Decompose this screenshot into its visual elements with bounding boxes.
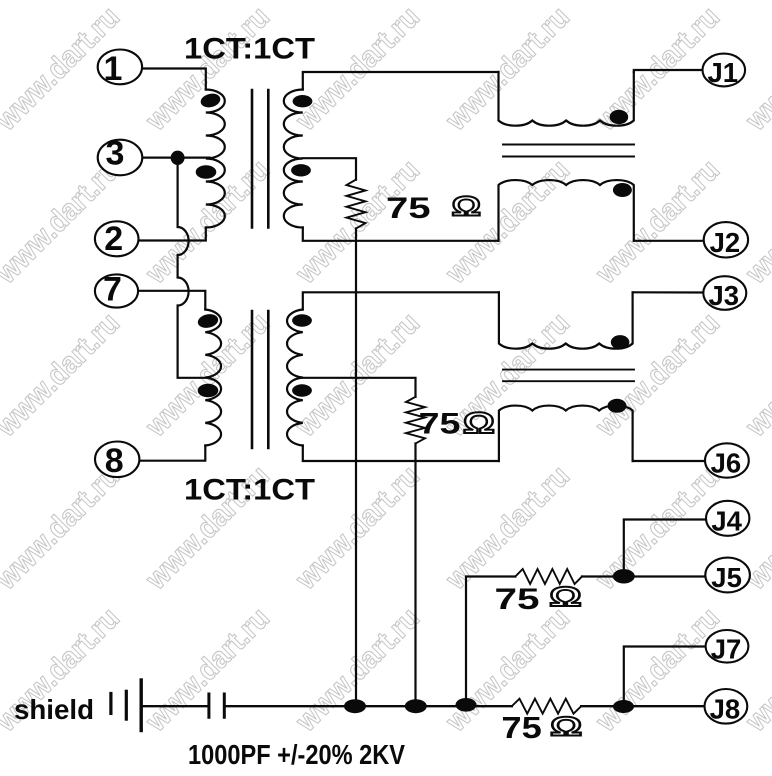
polarity dot T1 secondary upper xyxy=(293,95,313,107)
pin terminal 3 xyxy=(98,140,143,176)
transformer T2 secondary winding xyxy=(287,310,303,446)
junction node R3 branch on ground bus xyxy=(456,698,477,712)
wire T2 secondary center tap to resistor R2 xyxy=(303,378,416,397)
wire T1 secondary top to choke L1 xyxy=(303,72,499,90)
choke L2 top winding xyxy=(499,292,633,348)
wire R4 to J8 xyxy=(581,705,705,707)
junction node R2 on ground bus xyxy=(405,699,427,713)
wire R2 bottom to ground bus xyxy=(414,444,416,707)
svg-text:J4: J4 xyxy=(711,505,742,536)
wire pin1 to T1 primary top xyxy=(142,69,206,90)
resistor R3 75 ohm xyxy=(515,569,582,584)
pin terminal 2 xyxy=(95,221,139,256)
wire node to J7 xyxy=(624,647,706,707)
wire T1 secondary bottom xyxy=(303,228,499,241)
svg-text:1000PF +/-20% 2KV: 1000PF +/-20% 2KV xyxy=(188,739,405,770)
svg-text:1CT:1CT: 1CT:1CT xyxy=(184,33,315,66)
wire choke L2 to J3 xyxy=(633,291,704,293)
resistor R1 75 ohm xyxy=(347,180,366,229)
svg-text:J3: J3 xyxy=(709,280,740,311)
wire T2 primary bottom to pin8 xyxy=(139,446,205,461)
polarity dot T2 primary lower xyxy=(198,384,219,397)
pin terminal 7 xyxy=(95,274,138,307)
polarity dot choke L1 top xyxy=(610,110,629,124)
svg-text:2: 2 xyxy=(104,220,123,258)
pin terminal 1 xyxy=(98,50,142,85)
svg-text:8: 8 xyxy=(105,442,124,480)
terminal J7 xyxy=(706,630,749,663)
svg-text:J7: J7 xyxy=(711,633,742,664)
polarity dot T1 primary upper xyxy=(199,92,222,110)
shield symbol xyxy=(109,694,112,714)
polarity dot choke L2 bottom xyxy=(608,399,627,413)
polarity dot choke L1 bottom xyxy=(613,183,632,197)
svg-text:75: 75 xyxy=(501,710,541,745)
transformer T1 primary winding xyxy=(206,90,225,228)
wire pin3 to T1 center tap xyxy=(142,157,210,159)
svg-text:75: 75 xyxy=(495,583,540,616)
choke L1 core xyxy=(503,145,634,157)
terminal J5 xyxy=(705,558,750,593)
wire choke L1 to J2 xyxy=(634,240,704,242)
polarity dot T1 primary lower xyxy=(196,165,217,178)
svg-text:1CT:1CT: 1CT:1CT xyxy=(184,474,315,507)
wire ground bus up to resistor R3 xyxy=(466,577,515,705)
svg-text:J6: J6 xyxy=(711,448,742,479)
junction node R1 on ground bus xyxy=(344,699,366,713)
svg-text:J2: J2 xyxy=(710,227,741,258)
svg-text:J1: J1 xyxy=(708,57,739,88)
svg-text:Ω: Ω xyxy=(550,712,582,742)
svg-text:1: 1 xyxy=(103,50,122,88)
terminal J8 xyxy=(705,689,748,724)
wire R3 to J5 xyxy=(582,575,705,577)
wire choke L1 to J1 xyxy=(634,70,704,72)
polarity dot choke L2 top xyxy=(611,335,630,349)
svg-text:75: 75 xyxy=(419,408,461,441)
wire shield to capacitor C1 xyxy=(141,705,209,707)
svg-text:75: 75 xyxy=(386,192,431,225)
terminal J2 xyxy=(704,222,748,257)
junction node J4/J5 xyxy=(613,569,635,583)
terminal J1 xyxy=(703,54,746,87)
choke L2 bottom winding xyxy=(499,406,633,461)
svg-text:Ω: Ω xyxy=(452,191,482,222)
polarity dot T2 secondary upper xyxy=(292,314,312,326)
junction node pin3 / center taps xyxy=(171,151,185,165)
wire R1 bottom to ground bus xyxy=(355,229,357,707)
svg-text:3: 3 xyxy=(106,135,125,173)
transformer T2 primary winding xyxy=(205,310,221,446)
transformer T1 core xyxy=(252,90,268,228)
wire pin7 to T2 primary top xyxy=(138,291,205,310)
wire node to J4 xyxy=(624,520,706,577)
ground bus wire xyxy=(224,705,512,707)
terminal J3 xyxy=(703,276,746,310)
choke L1 top winding xyxy=(499,72,634,126)
resistor R4 75 ohm xyxy=(512,699,581,714)
wire T1 secondary center tap to resistor R1 xyxy=(303,158,356,179)
polarity dot T1 secondary lower xyxy=(291,164,311,176)
svg-text:7: 7 xyxy=(103,271,122,309)
resistor R2 75 ohm xyxy=(406,397,425,444)
wire choke L2 to J6 xyxy=(633,460,705,462)
svg-text:J8: J8 xyxy=(710,693,741,724)
terminal J4 xyxy=(706,501,749,536)
transformer T2 core xyxy=(252,311,268,448)
polarity dot T2 secondary lower xyxy=(292,384,312,396)
choke L2 core xyxy=(503,370,634,382)
wire pin3 junction down to T2 center tap (with crossover hops) xyxy=(178,158,206,378)
transformer T1 secondary winding xyxy=(284,90,303,228)
polarity dot T2 primary upper xyxy=(197,312,220,329)
svg-text:shield: shield xyxy=(14,694,94,725)
svg-text:Ω: Ω xyxy=(463,407,495,440)
choke L1 bottom winding xyxy=(499,180,634,241)
svg-text:Ω: Ω xyxy=(549,581,581,612)
wire T2 secondary bottom xyxy=(303,446,499,462)
junction node J7/J8 xyxy=(613,700,634,713)
terminal J6 xyxy=(705,443,749,477)
pin terminal 8 xyxy=(95,442,139,478)
wire T2 secondary top to choke L2 xyxy=(303,292,499,309)
svg-text:J5: J5 xyxy=(711,562,742,593)
wire T1 primary bottom to pin2 xyxy=(137,228,206,241)
capacitor C1 1000PF xyxy=(209,694,224,717)
